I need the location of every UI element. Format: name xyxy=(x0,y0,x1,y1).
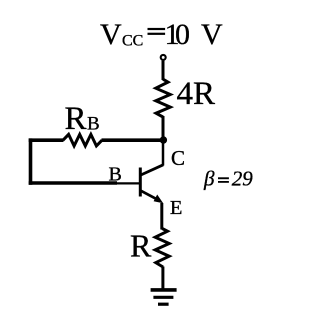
wire 4R to node C xyxy=(162,116,165,141)
resistor 4R xyxy=(156,79,171,117)
transistor Q1 emitter lead xyxy=(141,191,158,200)
svg-text:0: 0 xyxy=(175,18,190,51)
parameter label beta = 29 xyxy=(203,166,253,190)
transistor Q1 (NPN) base bar xyxy=(139,168,142,197)
resistor R xyxy=(155,229,169,268)
svg-text:4R: 4R xyxy=(177,76,216,112)
svg-text:R: R xyxy=(130,228,152,264)
svg-text:β: β xyxy=(203,166,215,190)
node C junction dot xyxy=(160,136,167,143)
transistor Q1 collector lead xyxy=(141,165,163,175)
wire VCC terminal to 4R xyxy=(162,61,165,80)
svg-text:B: B xyxy=(87,114,100,135)
svg-text:E: E xyxy=(170,197,183,219)
net label VCC = 10 V xyxy=(100,18,223,51)
wire node to RB (top feedback wire right part) xyxy=(102,138,164,142)
svg-text:CC: CC xyxy=(122,33,143,50)
svg-text:29: 29 xyxy=(232,166,254,190)
wire bottom to base xyxy=(29,181,117,185)
base lead thin xyxy=(117,182,140,184)
wire RB to left corner xyxy=(29,138,64,142)
wire left vertical xyxy=(29,138,33,184)
terminal VCC xyxy=(161,55,166,60)
ground xyxy=(151,290,177,304)
resistor RB xyxy=(63,134,102,146)
svg-text:V: V xyxy=(201,18,223,51)
wire node C to collector xyxy=(162,140,165,166)
svg-text:C: C xyxy=(171,146,185,170)
svg-text:R: R xyxy=(65,101,87,137)
svg-text:V: V xyxy=(100,18,122,51)
wire R to ground xyxy=(161,267,164,291)
wire emitter down xyxy=(160,203,163,230)
transistor Q1 emitter arrowhead xyxy=(154,195,164,204)
svg-text:B: B xyxy=(109,164,122,186)
